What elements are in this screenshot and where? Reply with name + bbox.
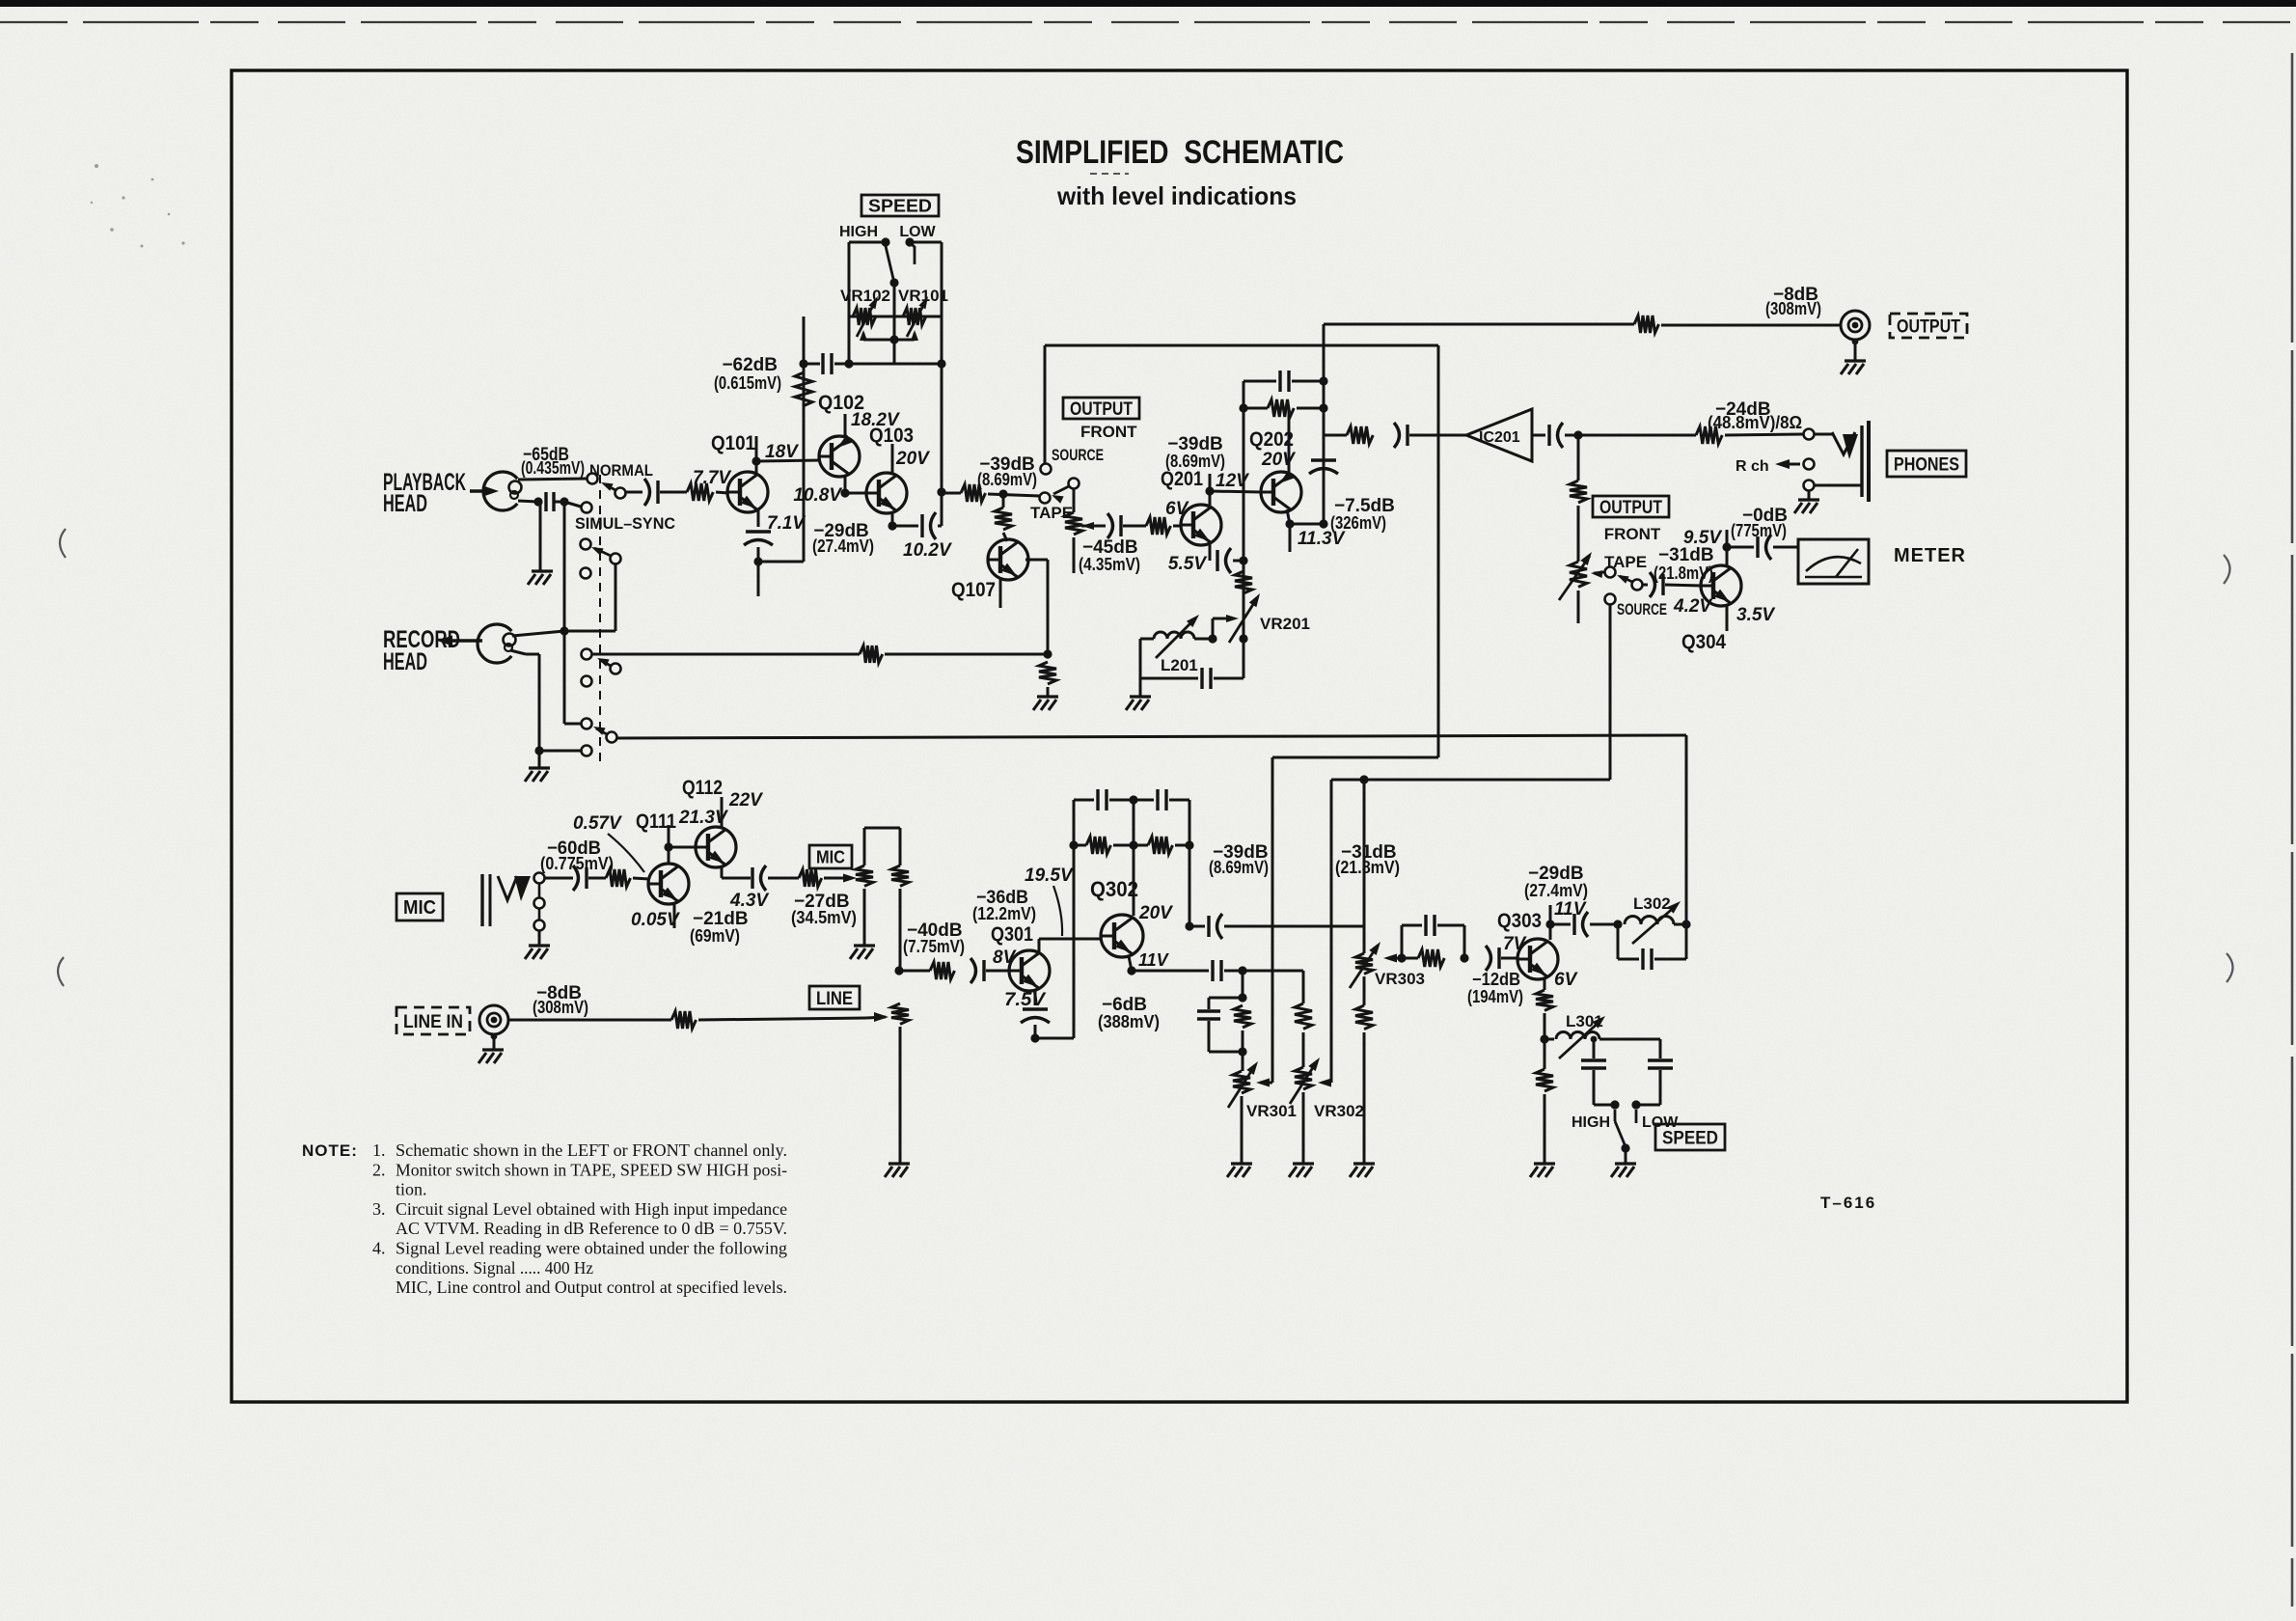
Q112 collector stub bbox=[721, 797, 724, 828]
bus vr301 source bbox=[1272, 756, 1438, 759]
label 4.35mV bbox=[1079, 555, 1140, 574]
wire collector to cap bbox=[1550, 923, 1571, 926]
wire IC201 out bbox=[1532, 434, 1545, 437]
svg-text:Q111: Q111 bbox=[636, 810, 676, 833]
phone plug symbol bbox=[1815, 421, 1869, 502]
svg-text:T–616: T–616 bbox=[1820, 1194, 1876, 1212]
label -40dB bbox=[907, 920, 963, 941]
bus record head bbox=[617, 735, 1686, 738]
fb loop Q303 bbox=[1402, 915, 1464, 958]
potentiometer VR301 bbox=[1228, 1052, 1258, 1108]
L201 left drop bbox=[1139, 639, 1142, 678]
capacitor Q301 base bbox=[970, 958, 984, 983]
svg-text:(34.5mV): (34.5mV) bbox=[791, 908, 857, 927]
potentiometer VR303 bbox=[1350, 942, 1380, 988]
label SOURCE sw2 bbox=[1617, 600, 1667, 618]
box SPEED bbox=[861, 195, 939, 216]
label 6V q303 bbox=[1554, 970, 1578, 990]
svg-text:(21.8mV): (21.8mV) bbox=[1335, 858, 1400, 877]
label 22V bbox=[728, 790, 763, 810]
label -31dB vr302 bbox=[1341, 842, 1397, 863]
res row wire right bbox=[1297, 407, 1324, 410]
label 0.57V bbox=[573, 813, 622, 834]
collector lead Q202 bbox=[1288, 408, 1291, 473]
speed2 lever bbox=[1615, 1110, 1630, 1153]
wire cap to emitter node bbox=[753, 547, 762, 596]
svg-text:22V: 22V bbox=[728, 790, 763, 810]
svg-text:VR303: VR303 bbox=[1375, 970, 1425, 988]
record head bottom wire bbox=[510, 650, 581, 756]
svg-text:20V: 20V bbox=[895, 449, 930, 469]
switch common r3 bbox=[591, 547, 621, 564]
svg-text:(12.2mV): (12.2mV) bbox=[972, 904, 1036, 923]
label 8.69mV q302 bbox=[1209, 858, 1269, 877]
label 18.2V bbox=[851, 410, 900, 430]
svg-text:7.5V: 7.5V bbox=[1004, 990, 1046, 1010]
svg-text:20V: 20V bbox=[1261, 450, 1296, 470]
main fb column x1372 bbox=[1319, 324, 1327, 529]
label 20V q302 bbox=[1138, 903, 1173, 923]
resistor playback series bbox=[687, 483, 713, 501]
node L302 right bbox=[1681, 920, 1690, 928]
capacitor mic in bbox=[573, 865, 587, 891]
svg-text:Q103: Q103 bbox=[869, 425, 914, 447]
capacitor q302 emitter bbox=[1213, 960, 1221, 981]
collector stub Q103 bbox=[891, 444, 894, 475]
label TAPE sw2 bbox=[1604, 553, 1647, 571]
label 48.8mV 8ohm bbox=[1708, 413, 1802, 432]
resistor record bus bbox=[860, 646, 883, 663]
collector lead Q201 bbox=[1205, 474, 1214, 508]
svg-text:−12dB: −12dB bbox=[1472, 970, 1520, 989]
svg-text:(8.69mV): (8.69mV) bbox=[977, 470, 1037, 489]
svg-text:(4.35mV): (4.35mV) bbox=[1079, 555, 1140, 574]
label 0.435mV bbox=[521, 458, 585, 478]
Q303 emitter node wire bbox=[1540, 1013, 1548, 1044]
label VR102 bbox=[840, 287, 890, 305]
wire column to res bbox=[1324, 434, 1347, 437]
svg-text:−31dB: −31dB bbox=[1658, 545, 1714, 565]
label PLAYBACK HEAD bbox=[383, 469, 466, 517]
label 308mV line bbox=[533, 998, 588, 1017]
ground phones bbox=[1794, 491, 1819, 513]
pot output front drop bbox=[1073, 489, 1076, 512]
wire emitter row a bbox=[1132, 970, 1209, 973]
rc branch vr301 bbox=[1197, 971, 1251, 1057]
bus to output jack bbox=[1324, 323, 1634, 326]
vr303 column top bbox=[1363, 780, 1366, 926]
svg-text:VR302: VR302 bbox=[1314, 1102, 1364, 1120]
capacitor Q304 base bbox=[1650, 572, 1663, 597]
Q303 collector lead bbox=[1545, 905, 1554, 940]
svg-text:Q201: Q201 bbox=[1161, 468, 1203, 490]
ground line pot bbox=[885, 1164, 910, 1177]
label -36dB bbox=[976, 888, 1028, 908]
vr302 branch bbox=[1302, 971, 1305, 1003]
label Q103 bbox=[869, 425, 914, 447]
label Q303 bbox=[1497, 910, 1542, 932]
label 7.7V bbox=[693, 468, 731, 488]
pot stub down 2 bbox=[1577, 591, 1580, 623]
svg-text:VR201: VR201 bbox=[1260, 615, 1310, 633]
switch common r4 bbox=[593, 727, 617, 743]
svg-text:VR301: VR301 bbox=[1246, 1102, 1297, 1120]
callout 19.5V bbox=[1053, 886, 1062, 936]
label T-616 bbox=[1820, 1194, 1876, 1212]
mic sleeve contact bbox=[534, 920, 545, 931]
svg-text:(8.69mV): (8.69mV) bbox=[1209, 858, 1269, 877]
label Q112 bbox=[682, 777, 723, 799]
label NOTE bbox=[302, 1141, 358, 1160]
wire cap to Q301 bbox=[986, 970, 1010, 973]
label R ch bbox=[1736, 458, 1769, 475]
svg-text:Q202: Q202 bbox=[1249, 428, 1294, 451]
ground record column bbox=[525, 751, 550, 782]
node cap eq row bbox=[799, 359, 807, 368]
potentiometer MIC level bbox=[856, 828, 873, 946]
label Q304 bbox=[1681, 631, 1726, 653]
dashed switch gang line bbox=[599, 475, 601, 762]
phones sleeve contact bbox=[1804, 481, 1815, 491]
svg-text:FRONT: FRONT bbox=[1080, 423, 1137, 441]
svg-text:LOW: LOW bbox=[899, 224, 936, 240]
ground mic pot bbox=[850, 946, 875, 959]
label 21.8mV sw2 bbox=[1654, 563, 1713, 583]
wire to phones resistor bbox=[1578, 434, 1696, 437]
cap row wire right bbox=[1292, 380, 1324, 383]
resistor Q303 emitter bbox=[1536, 990, 1553, 1010]
switch contact r4b bbox=[582, 746, 592, 756]
label RECORD HEAD bbox=[383, 626, 460, 675]
border frame bbox=[232, 70, 2127, 1402]
label NORMAL bbox=[589, 461, 653, 480]
svg-text:NORMAL: NORMAL bbox=[589, 461, 653, 480]
switch contact sync bbox=[582, 503, 592, 513]
node 18V collector Q101 bbox=[752, 436, 760, 475]
svg-text:VR102: VR102 bbox=[840, 287, 890, 305]
fb column Q302 left bbox=[1073, 800, 1076, 1038]
wire cap to Q303 bbox=[1501, 957, 1517, 960]
svg-text:18V: 18V bbox=[765, 442, 799, 462]
wire line in a bbox=[508, 1019, 671, 1022]
svg-text:IC201: IC201 bbox=[1479, 429, 1520, 446]
wire main row a bbox=[942, 492, 961, 495]
Q301 collector link bbox=[1039, 939, 1102, 953]
svg-text:7.7V: 7.7V bbox=[693, 468, 731, 488]
switch contact NORMAL bbox=[588, 474, 598, 484]
mix column bbox=[894, 889, 903, 975]
transistor Q101 bbox=[727, 472, 768, 512]
playback head PB bbox=[483, 472, 521, 510]
R ch arrow bbox=[1775, 459, 1800, 469]
capacitor to Q201 bbox=[1107, 513, 1121, 538]
margin curve right lower bbox=[2227, 953, 2233, 982]
label 7.1V bbox=[767, 513, 806, 534]
wire cap to L302 bbox=[1590, 920, 1623, 928]
wire cap to mic pot res bbox=[768, 877, 799, 880]
svg-text:2.: 2. bbox=[372, 1160, 386, 1179]
capacitor Q301 emitter bbox=[1021, 1009, 1050, 1023]
wire eq row left bbox=[804, 363, 820, 366]
note text block bbox=[372, 1140, 787, 1297]
label SIMUL-SYNC bbox=[575, 514, 675, 533]
resistor Q107 emitter bbox=[1039, 662, 1056, 684]
svg-text:3.: 3. bbox=[372, 1199, 386, 1219]
wire emitter row b bbox=[1224, 966, 1303, 975]
res row wire left bbox=[1239, 403, 1268, 412]
arrow into playback head bbox=[470, 486, 499, 497]
svg-text:L302: L302 bbox=[1633, 894, 1671, 913]
wire resistor to phones jack bbox=[1725, 434, 1803, 435]
vr303 ground wire bbox=[1363, 1032, 1366, 1164]
wire res to Q111 bbox=[633, 878, 649, 879]
label VR101 bbox=[898, 287, 948, 305]
label 11.3V bbox=[1298, 529, 1346, 549]
emitter lead Q103 bbox=[888, 512, 896, 531]
record head top wire bbox=[512, 626, 615, 636]
label 20V q202 bbox=[1261, 450, 1296, 470]
label 0.05V bbox=[631, 910, 680, 930]
wire emitter to column bbox=[1290, 523, 1324, 526]
output level column bbox=[1577, 435, 1580, 481]
transistor Q303 bbox=[1517, 939, 1558, 979]
emitter lead Q102 bbox=[840, 476, 849, 498]
Q303 bias lower bbox=[1544, 1039, 1546, 1069]
svg-text:(388mV): (388mV) bbox=[1098, 1012, 1160, 1031]
pot row wire bbox=[849, 316, 942, 318]
label -24dB bbox=[1715, 399, 1771, 420]
resistor mic level bbox=[799, 869, 822, 887]
label 4.3V bbox=[729, 891, 769, 911]
label 12V bbox=[1216, 471, 1249, 491]
wire cap out to vr303 column bbox=[1224, 925, 1364, 928]
label 8.69mV sw1 bbox=[977, 470, 1037, 489]
title SIMPLIFIED SCHEMATIC bbox=[1016, 134, 1344, 171]
resistor Q301 base bbox=[930, 962, 955, 979]
svg-text:MIC: MIC bbox=[816, 847, 845, 866]
svg-text:1.: 1. bbox=[372, 1140, 386, 1160]
transistor Q102 bbox=[819, 434, 860, 477]
node VR201 bottom bbox=[1239, 634, 1247, 643]
Q107 collector link bbox=[1003, 494, 1007, 541]
label 9.5V bbox=[1683, 528, 1722, 548]
vr301 ground wire bbox=[1241, 1096, 1244, 1164]
svg-text:11V: 11V bbox=[1138, 950, 1170, 970]
label -8dB line bbox=[536, 983, 582, 1003]
resistor vr302 branch bbox=[1295, 1003, 1312, 1029]
emitter lead Q202 bbox=[1285, 509, 1294, 552]
label 7.5V bbox=[1004, 990, 1046, 1010]
ground stub playback bbox=[539, 502, 542, 571]
speed switch lever bbox=[886, 246, 899, 288]
speed cap low bbox=[1636, 1039, 1673, 1105]
potentiometer VR201 bbox=[1229, 593, 1260, 643]
bus vr302 column bbox=[1330, 780, 1333, 1083]
vr303 lower bbox=[1363, 976, 1366, 1005]
svg-text:(194mV): (194mV) bbox=[1467, 987, 1523, 1006]
svg-text:SOURCE: SOURCE bbox=[1617, 600, 1667, 618]
svg-text:SPEED: SPEED bbox=[1662, 1128, 1718, 1148]
wire res to output jack bbox=[1661, 324, 1841, 327]
svg-text:MIC, Line control and Output c: MIC, Line control and Output control at … bbox=[396, 1278, 787, 1297]
label L301 bbox=[1566, 1012, 1603, 1030]
capacitor Q303 out bbox=[1574, 912, 1588, 937]
label 388mV bbox=[1098, 1012, 1160, 1031]
wire cap to speed column bbox=[938, 525, 942, 528]
label L201 bbox=[1161, 656, 1198, 674]
svg-text:SPEED: SPEED bbox=[868, 196, 932, 215]
svg-text:(27.4mV): (27.4mV) bbox=[812, 536, 874, 556]
bus source1 bbox=[1045, 344, 1438, 347]
label 12.2mV bbox=[972, 904, 1036, 923]
speed block left wire bbox=[848, 242, 851, 364]
fb column Q302 right bbox=[1185, 800, 1193, 931]
label 194mV bbox=[1467, 987, 1523, 1006]
wire cap to IC201 bbox=[1409, 434, 1466, 437]
Q111 collector node bbox=[664, 825, 672, 865]
label -12dB bbox=[1472, 970, 1520, 989]
label 69mV bbox=[690, 926, 740, 946]
wire common to cap bbox=[626, 491, 642, 494]
svg-text:L201: L201 bbox=[1161, 656, 1198, 674]
svg-text:HEAD: HEAD bbox=[383, 490, 427, 517]
resistor mic in bbox=[606, 869, 631, 887]
mix top wire bbox=[864, 827, 900, 830]
svg-text:Monitor switch shown in TAPE,: Monitor switch shown in TAPE, SPEED SW H… bbox=[396, 1160, 787, 1179]
svg-text:4.2V: 4.2V bbox=[1673, 596, 1712, 617]
svg-text:MIC: MIC bbox=[403, 897, 436, 919]
svg-text:0.05V: 0.05V bbox=[631, 910, 680, 930]
potentiometer VR101 bbox=[903, 296, 928, 337]
box OUTPUT sw1 bbox=[1063, 398, 1139, 420]
label 7V bbox=[1503, 934, 1527, 954]
label VR301 bbox=[1246, 1102, 1297, 1120]
svg-text:3.5V: 3.5V bbox=[1736, 605, 1775, 625]
wire res to pot bbox=[1577, 506, 1580, 562]
resistor Q303 bias bbox=[1536, 1069, 1553, 1091]
label -29dB q303 bbox=[1528, 864, 1584, 884]
margin curve right upper bbox=[2224, 555, 2230, 584]
svg-text:LINE IN: LINE IN bbox=[403, 1012, 463, 1032]
res row q302 bbox=[1069, 837, 1189, 854]
label HIGH bbox=[839, 224, 878, 240]
switch contact r3b-a bbox=[582, 649, 592, 660]
monitor2 arrow to pot bbox=[1591, 570, 1604, 578]
node HIGH sw2 bbox=[1610, 1100, 1619, 1109]
label 8V bbox=[993, 948, 1017, 968]
svg-text:with level indications: with level indications bbox=[1056, 181, 1297, 210]
switch common playback bbox=[601, 482, 626, 499]
wire mic tip bbox=[545, 877, 573, 880]
bus vr302 source bbox=[1331, 775, 1610, 783]
label -60dB bbox=[547, 838, 601, 859]
record common riser bbox=[615, 564, 617, 631]
monitor2 common bbox=[1617, 575, 1643, 591]
vr301 wiper arrow bbox=[1256, 1079, 1272, 1087]
svg-text:(8.69mV): (8.69mV) bbox=[1165, 452, 1225, 471]
label 0.615mV bbox=[714, 373, 781, 393]
label Q102 bbox=[818, 392, 864, 414]
svg-text:HEAD: HEAD bbox=[383, 648, 427, 675]
capacitor Q201 emitter bbox=[1217, 548, 1231, 573]
node LOW sw2 bbox=[1631, 1100, 1640, 1109]
svg-text:tion.: tion. bbox=[396, 1180, 427, 1199]
label 21.3V bbox=[678, 808, 728, 828]
bus column record to L302 bbox=[1685, 735, 1688, 924]
line pot column bbox=[899, 1027, 902, 1164]
svg-text:Q101: Q101 bbox=[711, 432, 755, 454]
margin curve left upper bbox=[60, 529, 66, 558]
svg-text:(326mV): (326mV) bbox=[1330, 513, 1386, 533]
Q107 emitter wire bbox=[1025, 560, 1048, 654]
Q303 bias ground wire bbox=[1544, 1094, 1546, 1164]
scanner top edge bar bbox=[0, 0, 2296, 7]
L302 tuning arrow bbox=[1632, 901, 1681, 944]
potentiometer VR102 bbox=[853, 296, 878, 337]
capacitor Q302 out bbox=[1209, 914, 1222, 939]
label Q301 bbox=[991, 923, 1033, 946]
wiper bus VR102 VR101 bbox=[860, 330, 918, 344]
label 11V q302 bbox=[1138, 950, 1170, 970]
transistor Q107 bbox=[988, 539, 1028, 580]
resistor Q303 base bbox=[1418, 949, 1444, 967]
record head RH bbox=[478, 624, 515, 663]
label 0.775mV bbox=[540, 854, 614, 873]
svg-text:Circuit signal Level obtained: Circuit signal Level obtained with High … bbox=[396, 1199, 787, 1219]
box OUTPUT jack bbox=[1890, 314, 1967, 338]
monitor2 TAPE contact bbox=[1605, 567, 1616, 578]
vr303 column mid bbox=[1363, 926, 1366, 953]
scan streak line bbox=[0, 21, 2296, 23]
svg-text:LINE: LINE bbox=[816, 989, 853, 1009]
svg-text:(0.435mV): (0.435mV) bbox=[521, 458, 585, 478]
collector lead Q304 bbox=[1722, 530, 1731, 567]
label Q201 bbox=[1161, 468, 1203, 490]
label 18V bbox=[765, 442, 799, 462]
wire Q201 collector to Q202 base bbox=[1210, 491, 1262, 492]
wire cap to resistor bbox=[660, 491, 687, 494]
transistor Q111 bbox=[648, 864, 689, 904]
svg-text:SOURCE: SOURCE bbox=[1052, 446, 1104, 464]
speed LOW stub bbox=[910, 242, 915, 264]
svg-text:Signal Level reading were obta: Signal Level reading were obtained under… bbox=[396, 1239, 787, 1258]
label 6V bbox=[1165, 499, 1189, 519]
label -0dB bbox=[1742, 506, 1788, 526]
svg-text:(48.8mV)/8Ω: (48.8mV)/8Ω bbox=[1708, 413, 1802, 432]
label -27dB bbox=[794, 892, 850, 912]
transistor Q202 bbox=[1261, 470, 1301, 512]
vr302 mid wire bbox=[1302, 1032, 1305, 1067]
svg-text:(7.75mV): (7.75mV) bbox=[903, 937, 965, 956]
svg-text:HIGH: HIGH bbox=[839, 224, 878, 240]
monitor1 SOURCE contact bbox=[1041, 464, 1052, 475]
potentiometer LINE level bbox=[891, 1003, 909, 1024]
label VR201 bbox=[1260, 615, 1310, 633]
svg-text:Q107: Q107 bbox=[951, 579, 996, 601]
ground mic jack bbox=[525, 931, 550, 959]
label TAPE sw1 bbox=[1030, 504, 1073, 522]
resistor fb Q202 bbox=[1268, 399, 1294, 417]
svg-text:−62dB: −62dB bbox=[722, 355, 778, 375]
Q107 base stub bbox=[999, 577, 1002, 608]
switch contact r4a bbox=[582, 719, 592, 729]
ground vr301 bbox=[1227, 1164, 1252, 1177]
switch common r3b bbox=[597, 658, 621, 674]
transistor Q304 bbox=[1701, 565, 1741, 606]
callout 0.57V bbox=[608, 834, 644, 872]
transistor Q112 bbox=[696, 827, 736, 867]
label -29dB q102 bbox=[813, 521, 869, 541]
